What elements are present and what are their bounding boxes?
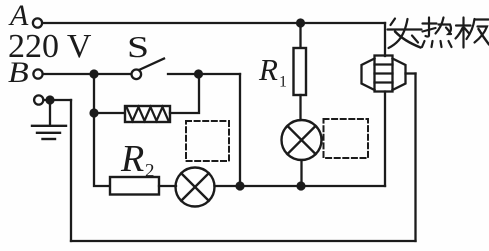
wire from A-line corner down to heater top <box>384 23 386 56</box>
node junction on B-line <box>89 69 98 78</box>
wire lamp L2 to heater-bottom line <box>215 185 386 187</box>
wire left branch vertical from B junction down to R2 <box>94 74 110 186</box>
wire A junction down to R1 <box>299 23 301 48</box>
resistor R1 box <box>294 48 307 95</box>
wire right outer vertical <box>414 74 416 242</box>
lamp L2 (left lamp) <box>176 168 215 207</box>
wire left outer vertical <box>70 100 72 241</box>
node junction at ground <box>45 95 54 104</box>
板 <box>456 24 471 26</box>
node junction on A-line <box>296 18 305 27</box>
wire A-line top <box>43 22 385 24</box>
wire lamp L1 down to lamp line <box>300 160 302 186</box>
node junction after switch <box>194 69 203 78</box>
wire heater right terminal <box>406 72 416 74</box>
heater label 发热板 (drawn strokes) <box>388 18 489 49</box>
svg-text:R: R <box>258 52 278 87</box>
wire B-line to switch <box>44 73 130 75</box>
热 <box>426 18 430 37</box>
ground stem <box>49 100 51 126</box>
terminal B <box>33 69 42 78</box>
switch S contact circle <box>132 70 142 80</box>
wire R1 to lamp L1 <box>299 95 301 120</box>
heater plate right flank <box>393 59 406 91</box>
node junction lamp line left <box>235 181 244 190</box>
node junction lamp line right <box>296 181 305 190</box>
dashed box near lamp L1 <box>324 119 369 158</box>
heating element (hatched resistor box) <box>125 106 170 122</box>
switch S blade <box>140 59 164 70</box>
wire ground branch horizontal <box>44 99 71 101</box>
svg-text:S: S <box>127 29 149 64</box>
wire bottom outer <box>71 240 416 242</box>
node junction on left branch <box>89 108 98 117</box>
wire heater bottom to lamp line <box>384 92 386 187</box>
wire corner down to lamp line <box>239 74 241 186</box>
ground symbol bars <box>32 125 66 127</box>
wire R2 to lamp L2 <box>159 185 176 187</box>
wire heating element to switch-line junction <box>170 76 199 113</box>
terminal A <box>33 18 42 27</box>
svg-text:R: R <box>120 138 144 180</box>
wire junction to heating element <box>94 112 125 114</box>
lamp L1 (right lamp) <box>282 120 322 160</box>
heater plate rungs <box>375 63 393 65</box>
resistor R2 box <box>110 177 159 195</box>
ground terminal circle <box>34 95 43 104</box>
dashed box near lamp L2 <box>186 121 229 161</box>
svg-text:B: B <box>8 55 29 89</box>
heater plate symbol body <box>375 56 393 92</box>
发 <box>391 19 396 26</box>
heater plate left flank <box>362 59 375 91</box>
wire switch to corner <box>168 73 240 75</box>
svg-text:1: 1 <box>279 74 287 91</box>
